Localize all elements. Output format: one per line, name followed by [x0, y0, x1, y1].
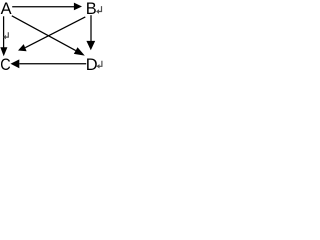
- svg-text:C: C: [0, 56, 10, 73]
- arrowhead at C (from B): [18, 44, 27, 51]
- arrowhead toward D (from B): [86, 41, 95, 50]
- line-break mark mid-left: [6, 32, 9, 37]
- line-break mark after B: [99, 6, 102, 11]
- wire A to B: [12, 6, 74, 8]
- arrowhead at D (from A): [74, 47, 85, 55]
- line-break mark after D: [99, 61, 102, 67]
- svg-text:A: A: [1, 0, 12, 18]
- wire A to D diagonal: [12, 16, 76, 51]
- svg-text:D: D: [86, 56, 98, 73]
- arrowhead at B: [74, 3, 82, 11]
- wire B to D: [90, 15, 92, 41]
- wire B to C diagonal: [25, 17, 85, 48]
- wire A to C: [3, 16, 5, 48]
- arrowhead at C (from D): [11, 59, 20, 68]
- arrowhead at C (from A): [0, 47, 7, 56]
- wire D to C: [19, 63, 86, 65]
